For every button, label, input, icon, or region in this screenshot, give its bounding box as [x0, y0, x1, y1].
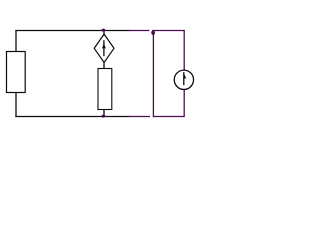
arrow head inside diamond — [102, 43, 106, 48]
wire right loop top — [152, 30, 184, 32]
wire stub resistor to bottom — [103, 110, 105, 117]
resistor R1 — [7, 52, 26, 93]
wire top purple segment — [129, 30, 149, 32]
wire stub diamond to resistor — [103, 62, 105, 69]
wire left vertical upper — [15, 30, 17, 51]
wire bottom purple segment — [129, 116, 150, 118]
wire right loop bottom — [153, 116, 184, 118]
node junction dot right — [151, 30, 155, 35]
arrow shaft inside diamond — [103, 40, 105, 56]
wire right loop right side — [183, 30, 185, 117]
wire left vertical lower — [15, 93, 17, 117]
node junction dot top-middle — [102, 29, 106, 32]
resistor R2 — [98, 69, 112, 110]
wire bottom black segment — [15, 116, 129, 118]
wire stub top to diamond — [103, 30, 105, 36]
node junction dot bottom-middle — [102, 115, 106, 118]
arrow head inside current source — [184, 73, 186, 78]
current source I1 circle — [174, 70, 193, 89]
wire top black segment — [15, 30, 129, 32]
wire right loop left side — [152, 30, 154, 117]
arrow shaft inside current source — [183, 72, 185, 85]
dependent current source diamond — [94, 34, 114, 62]
